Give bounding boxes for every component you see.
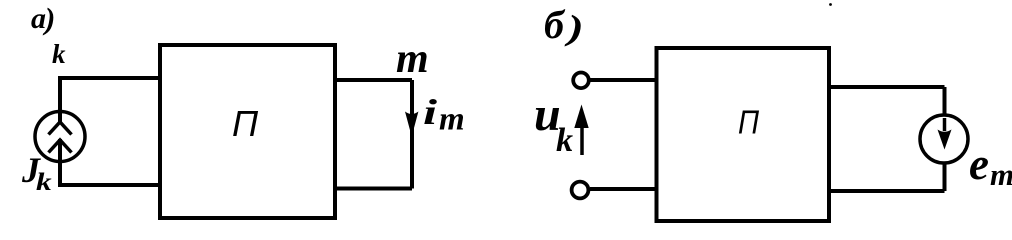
svg-text:m: m	[439, 102, 465, 138]
svg-text:m: m	[396, 36, 429, 82]
svg-text:i: i	[423, 93, 437, 132]
svg-text:m: m	[990, 157, 1012, 192]
svg-text:б: б	[544, 2, 566, 47]
svg-text:k: k	[52, 39, 66, 69]
svg-text:k: k	[556, 122, 573, 159]
svg-text:e: e	[969, 139, 989, 189]
svg-text:П: П	[738, 104, 759, 141]
svg-text:П: П	[232, 103, 259, 144]
svg-text:k: k	[36, 169, 52, 196]
svg-text:а: а	[31, 2, 46, 35]
